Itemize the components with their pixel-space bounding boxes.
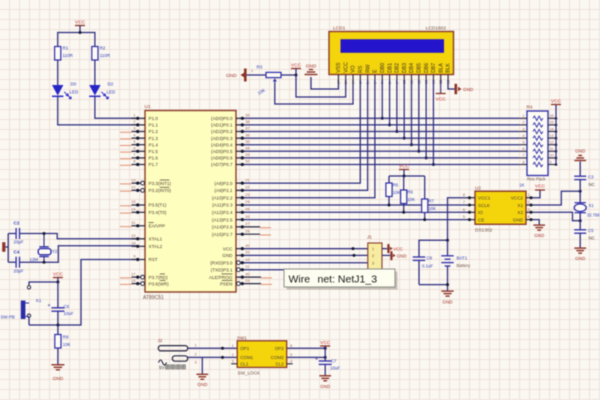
capacitor C2 xyxy=(15,228,17,239)
LCD pin names xyxy=(336,62,452,73)
svg-text:PSEN: PSEN xyxy=(220,281,233,286)
wire CE net (P2.5) xyxy=(244,219,467,221)
svg-text:12: 12 xyxy=(131,186,135,190)
svg-text:3: 3 xyxy=(372,261,374,265)
svg-text:Y2: Y2 xyxy=(52,249,58,254)
svg-text:U1: U1 xyxy=(145,104,151,110)
svg-text:LCD1602: LCD1602 xyxy=(426,26,447,32)
svg-text:(A8)P2.0: (A8)P2.0 xyxy=(214,181,233,186)
svg-text:(A13)P2.5: (A13)P2.5 xyxy=(212,217,233,222)
svg-text:6: 6 xyxy=(463,208,465,212)
svg-text:12: 12 xyxy=(550,141,554,145)
svg-text:VCC: VCC xyxy=(535,183,546,189)
svg-text:32: 32 xyxy=(245,160,249,164)
svg-text:DS1302: DS1302 xyxy=(475,228,493,234)
svg-text:32.768: 32.768 xyxy=(587,213,600,218)
svg-text:40: 40 xyxy=(245,244,249,248)
U1 right pins xyxy=(209,114,272,287)
svg-text:GND: GND xyxy=(442,300,453,305)
svg-text:C4: C4 xyxy=(14,249,20,254)
svg-text:VCC1: VCC1 xyxy=(478,196,491,201)
wire LCD DB2 to P0.2 xyxy=(396,80,398,132)
svg-text:5: 5 xyxy=(523,141,525,145)
svg-text:(A9)P2.1: (A9)P2.1 xyxy=(214,188,233,193)
power VCC (reset) xyxy=(53,277,63,279)
wire reset top rail xyxy=(29,282,58,286)
svg-text:8: 8 xyxy=(463,193,465,197)
battery BAT1 xyxy=(447,240,449,256)
svg-text:X1: X1 xyxy=(517,203,523,208)
svg-text:1: 1 xyxy=(232,344,234,348)
svg-text:SCLK: SCLK xyxy=(478,203,491,208)
wire LCD DB6 to P0.6 xyxy=(425,80,427,158)
wire VCC1 to battery rail xyxy=(448,198,467,241)
wire LCD RW to P2.1 xyxy=(244,80,368,190)
svg-text:NC: NC xyxy=(589,236,595,241)
SW1 pins xyxy=(231,344,293,367)
svg-text:DB6: DB6 xyxy=(424,63,430,73)
svg-text:19: 19 xyxy=(131,234,135,238)
wire J2 pin2 to SW1 COM1 xyxy=(188,356,238,358)
svg-text:SW-PB: SW-PB xyxy=(1,315,15,320)
svg-text:4: 4 xyxy=(290,360,292,364)
svg-text:+: + xyxy=(315,357,318,363)
ground port (LCD BLK) xyxy=(448,80,455,89)
LCD pin stubs and numbers xyxy=(337,75,451,85)
svg-text:(AD0)P0.0: (AD0)P0.0 xyxy=(211,116,233,121)
svg-text:3: 3 xyxy=(195,361,197,365)
wire LCD E to P2.2 xyxy=(244,80,375,198)
junction VCC rail xyxy=(79,31,82,34)
svg-text:6: 6 xyxy=(290,344,292,348)
wire XTAL1 net xyxy=(8,233,16,235)
svg-text:1: 1 xyxy=(337,82,341,84)
svg-text:(A12)P2.4: (A12)P2.4 xyxy=(212,210,233,215)
svg-text:26: 26 xyxy=(245,215,249,219)
svg-text:(RXD)P3.0: (RXD)P3.0 xyxy=(210,260,233,265)
svg-text:P1.6: P1.6 xyxy=(149,156,159,161)
svg-text:R6: R6 xyxy=(407,190,413,195)
resistor R6 10K xyxy=(403,176,405,190)
svg-text:5V: 5V xyxy=(159,365,166,370)
svg-text:35: 35 xyxy=(245,140,249,144)
ground (reset) xyxy=(51,364,64,366)
svg-text:P3.2(INT0): P3.2(INT0) xyxy=(149,188,172,193)
svg-text:15: 15 xyxy=(131,200,135,204)
svg-text:3: 3 xyxy=(528,208,530,212)
svg-text:1: 1 xyxy=(251,69,253,73)
svg-text:P3.4(T0): P3.4(T0) xyxy=(149,210,167,215)
svg-text:BLA: BLA xyxy=(438,63,444,73)
svg-text:GND: GND xyxy=(534,233,545,238)
svg-text:R2: R2 xyxy=(100,46,106,51)
svg-text:37: 37 xyxy=(245,127,249,131)
resistor R1 xyxy=(55,47,61,61)
wire wiper to LCD VO xyxy=(275,80,353,104)
svg-text:NC: NC xyxy=(589,182,595,187)
svg-text:OP2: OP2 xyxy=(275,346,285,351)
svg-text:SW_LOCK: SW_LOCK xyxy=(238,371,261,376)
capacitor C3 NC xyxy=(574,175,586,177)
svg-text:(AD3)P0.3: (AD3)P0.3 xyxy=(211,136,233,141)
svg-text:R4: R4 xyxy=(527,105,533,110)
svg-text:net: NetJ1_3: net: NetJ1_3 xyxy=(318,273,378,285)
svg-text:BLK: BLK xyxy=(446,63,452,73)
wire VSS to ground xyxy=(311,77,338,89)
svg-text:21: 21 xyxy=(245,178,249,182)
svg-text:4: 4 xyxy=(523,134,525,138)
svg-text:7: 7 xyxy=(463,201,465,205)
power VCC (SW1) xyxy=(320,345,330,347)
U1 left pin overlines xyxy=(149,180,170,280)
svg-text:GND: GND xyxy=(226,73,237,79)
U2 pins xyxy=(463,193,534,222)
svg-text:Res Pack: Res Pack xyxy=(527,177,546,182)
svg-text:2: 2 xyxy=(133,120,135,124)
power VCC port (J1 pin1) xyxy=(382,248,387,250)
ground (crystal column bottom) xyxy=(574,247,586,249)
svg-text:(AD4)P0.4: (AD4)P0.4 xyxy=(211,142,233,147)
svg-text:5: 5 xyxy=(290,353,292,357)
svg-text:11: 11 xyxy=(550,147,554,151)
svg-text:0.1uF: 0.1uF xyxy=(422,264,433,269)
svg-text:(TXD)P3.1: (TXD)P3.1 xyxy=(211,267,233,272)
svg-text:2: 2 xyxy=(372,254,374,258)
resistor R5 10K xyxy=(388,176,390,183)
wire P0 bus rows xyxy=(244,118,520,164)
svg-text:VCC: VCC xyxy=(320,340,331,346)
svg-text:XTAL2: XTAL2 xyxy=(149,244,163,249)
svg-text:P3.3(INT1): P3.3(INT1) xyxy=(149,181,172,186)
tooltip Wire net NetJ1_3 xyxy=(287,272,398,290)
svg-text:(AD5)P0.5: (AD5)P0.5 xyxy=(211,149,233,154)
svg-text:D0: D0 xyxy=(71,82,77,87)
svg-text:COM2: COM2 xyxy=(271,355,284,360)
svg-text:P1.4: P1.4 xyxy=(149,142,159,147)
svg-text:C6: C6 xyxy=(64,304,70,309)
wire SW1 COM2 to VCC xyxy=(287,356,326,358)
svg-text:P1.7: P1.7 xyxy=(149,162,159,167)
capacitor C7 10uF xyxy=(319,360,332,362)
svg-text:GND: GND xyxy=(306,64,317,70)
svg-text:7: 7 xyxy=(133,153,135,157)
svg-text:10uF: 10uF xyxy=(64,311,74,316)
svg-text:10K: 10K xyxy=(407,197,415,202)
capacitor C5 NC xyxy=(574,229,586,231)
wire LCD DB0 to P0.0 xyxy=(381,80,383,118)
svg-text:J1: J1 xyxy=(367,235,372,240)
svg-text:C3: C3 xyxy=(588,175,594,180)
svg-text:12M: 12M xyxy=(30,257,39,262)
svg-text:31: 31 xyxy=(131,221,135,225)
svg-text:20pF: 20pF xyxy=(14,269,24,274)
svg-text:IO: IO xyxy=(478,210,483,215)
svg-text:14: 14 xyxy=(131,208,135,212)
wire SCLK net (P2.3) xyxy=(244,204,467,206)
svg-text:13: 13 xyxy=(131,178,135,182)
svg-text:DB5: DB5 xyxy=(417,63,423,73)
power VCC (R4) xyxy=(551,104,561,106)
svg-text:5: 5 xyxy=(463,215,465,219)
svg-text:BAT1: BAT1 xyxy=(457,256,468,261)
svg-text:3: 3 xyxy=(232,360,234,364)
svg-text:EA/VPP: EA/VPP xyxy=(149,224,166,229)
svg-text:(A15)P2.7: (A15)P2.7 xyxy=(212,232,233,237)
wire U1 VCC pin to J1 pin1 xyxy=(244,248,368,250)
wire LCD DB4 to P0.4 xyxy=(411,80,413,145)
wire J2 pin1 to SW1 OP1 xyxy=(188,347,238,349)
svg-text:28: 28 xyxy=(245,229,249,233)
svg-text:39: 39 xyxy=(245,114,249,118)
svg-text:GND: GND xyxy=(320,384,331,389)
resistor R7 10K xyxy=(424,176,426,199)
svg-text:P1.5: P1.5 xyxy=(149,149,159,154)
svg-text:C5: C5 xyxy=(588,228,594,233)
svg-text:P1.2: P1.2 xyxy=(149,129,159,134)
svg-text:1: 1 xyxy=(372,247,374,251)
svg-text:RW: RW xyxy=(365,64,371,73)
power VCC (LED rail) xyxy=(75,25,85,27)
svg-text:X2: X2 xyxy=(517,210,523,215)
svg-text:P1.1: P1.1 xyxy=(149,123,159,128)
svg-text:10uF: 10uF xyxy=(330,366,340,371)
wire LCD DB3 to P0.3 xyxy=(403,80,405,138)
svg-text:22: 22 xyxy=(245,186,249,190)
svg-text:J2: J2 xyxy=(158,338,163,343)
crystal X1 32.768 xyxy=(575,202,586,204)
wire RST net xyxy=(29,260,137,326)
svg-text:8: 8 xyxy=(523,160,525,164)
svg-text:VCC: VCC xyxy=(436,97,447,103)
svg-text:DB2: DB2 xyxy=(395,63,401,73)
svg-text:2: 2 xyxy=(344,82,348,84)
svg-text:VO: VO xyxy=(351,65,357,72)
svg-text:2: 2 xyxy=(523,121,525,125)
ground (J2) xyxy=(201,357,203,374)
svg-text:(AD7)P0.7: (AD7)P0.7 xyxy=(211,162,233,167)
svg-text:AT89C51: AT89C51 xyxy=(143,295,164,301)
svg-text:GND: GND xyxy=(463,87,474,92)
svg-text:29: 29 xyxy=(245,279,249,283)
svg-text:2: 2 xyxy=(195,353,197,357)
svg-text:4: 4 xyxy=(133,133,135,137)
svg-text:34: 34 xyxy=(245,147,249,151)
svg-text:36: 36 xyxy=(245,133,249,137)
svg-text:LED: LED xyxy=(70,90,80,95)
svg-text:16: 16 xyxy=(131,279,135,283)
wire R8 to ground xyxy=(57,348,59,365)
wire battery top rail xyxy=(419,240,448,257)
ground (U2 GND pin) xyxy=(534,220,540,225)
svg-text:GND: GND xyxy=(575,256,586,261)
power VCC (U2 VCC2) xyxy=(534,190,541,197)
svg-text:10: 10 xyxy=(245,258,249,262)
capacitor C8 0.1uF xyxy=(413,256,426,258)
svg-text:R3: R3 xyxy=(257,65,263,70)
wire LCD DB7 to P0.7 xyxy=(432,80,434,165)
svg-text:(AD2)P0.2: (AD2)P0.2 xyxy=(211,129,233,134)
svg-text:2: 2 xyxy=(232,353,234,357)
svg-text:DB0: DB0 xyxy=(380,63,386,73)
svg-text:(A11)P2.3: (A11)P2.3 xyxy=(212,203,233,208)
svg-text:CE: CE xyxy=(478,217,484,222)
svg-text:3: 3 xyxy=(352,82,356,84)
wire U1 P3.1 to J1 pin4 xyxy=(244,269,368,271)
svg-text:ALE/PROG: ALE/PROG xyxy=(209,275,233,280)
svg-text:10K: 10K xyxy=(63,342,71,347)
capacitor C6 10uF xyxy=(57,282,59,308)
svg-text:SW1: SW1 xyxy=(237,336,247,341)
U1 left pins xyxy=(120,114,171,287)
resistor R2 xyxy=(92,47,98,61)
wire R2 to D2 xyxy=(94,60,96,85)
svg-text:P1.0: P1.0 xyxy=(149,116,159,121)
svg-text:10K: 10K xyxy=(393,190,401,195)
svg-text:P3.5(T1): P3.5(T1) xyxy=(149,203,167,208)
svg-text:18: 18 xyxy=(131,242,135,246)
svg-text:1K: 1K xyxy=(519,183,524,188)
ground (C7) xyxy=(319,375,331,377)
svg-text:Battery: Battery xyxy=(457,263,471,268)
wire X1 to crystal xyxy=(534,191,581,205)
svg-text:VCC: VCC xyxy=(291,62,302,68)
svg-text:(AD6)P0.6: (AD6)P0.6 xyxy=(211,156,233,161)
wire R1 to D0 xyxy=(57,60,59,85)
wire VCC to LCD pin2 xyxy=(296,75,346,97)
capacitor C4 xyxy=(15,257,17,268)
svg-text:15: 15 xyxy=(550,121,554,125)
svg-text:VSS: VSS xyxy=(336,62,342,73)
svg-text:R8: R8 xyxy=(63,335,69,340)
svg-text:VCC: VCC xyxy=(75,19,86,25)
svg-text:7: 7 xyxy=(523,154,525,158)
svg-text:DB7: DB7 xyxy=(431,63,437,73)
svg-text:RST: RST xyxy=(149,257,158,262)
svg-text:Wire: Wire xyxy=(289,273,311,285)
wire R3 to VCC node xyxy=(281,74,296,76)
wire U1 P3.0 to J1 pin3 (net NetJ1_3) xyxy=(244,262,368,264)
wire LED supply rail xyxy=(58,33,95,47)
svg-text:DB4: DB4 xyxy=(409,63,415,73)
svg-text:R1: R1 xyxy=(63,46,69,51)
svg-text:20pF: 20pF xyxy=(14,240,24,245)
svg-text:GND: GND xyxy=(222,253,233,258)
svg-text:K1: K1 xyxy=(36,298,42,303)
svg-text:GND: GND xyxy=(575,149,586,154)
svg-text:LED: LED xyxy=(107,90,117,95)
svg-text:VCC: VCC xyxy=(53,271,64,277)
svg-text:VCC: VCC xyxy=(393,246,403,251)
svg-text:13: 13 xyxy=(550,134,554,138)
power VCC (LCD backlight BLA) xyxy=(440,80,442,94)
crystal Y2 12M xyxy=(43,234,45,247)
svg-text:VCC: VCC xyxy=(551,98,562,104)
svg-text:14: 14 xyxy=(550,127,554,131)
wire X2 to crystal xyxy=(534,212,581,221)
wire D0 to U1 P1.1 xyxy=(58,96,137,125)
svg-text:E: E xyxy=(373,69,379,73)
svg-text:11: 11 xyxy=(245,265,249,269)
svg-text:R5: R5 xyxy=(393,183,399,188)
svg-text:1: 1 xyxy=(195,344,197,348)
LCD screen xyxy=(341,39,445,53)
svg-text:3: 3 xyxy=(523,127,525,131)
ground port (J1 pin2) xyxy=(382,254,390,256)
svg-text:DB3: DB3 xyxy=(402,63,408,73)
svg-text:27: 27 xyxy=(245,222,249,226)
wire D2 to U1 P1.0 xyxy=(95,96,137,118)
svg-text:P1.3: P1.3 xyxy=(149,136,159,141)
LED D0 xyxy=(52,85,63,96)
svg-text:8: 8 xyxy=(133,160,135,164)
svg-text:6: 6 xyxy=(523,147,525,151)
svg-text:17: 17 xyxy=(131,272,135,276)
svg-text:CL1: CL1 xyxy=(240,362,249,367)
wire LCD DB1 to P0.1 xyxy=(389,80,391,125)
wire R4 common to VCC xyxy=(555,105,557,165)
svg-text:P3.6(WR): P3.6(WR) xyxy=(149,281,170,286)
svg-text:COM1: COM1 xyxy=(240,355,253,360)
svg-text:25: 25 xyxy=(245,208,249,212)
U1 right pin overlines xyxy=(222,274,233,281)
svg-text:(AD1)P0.1: (AD1)P0.1 xyxy=(211,123,233,128)
svg-text:3: 3 xyxy=(133,127,135,131)
ground port (crystal circuit) xyxy=(2,242,5,252)
svg-text:9: 9 xyxy=(550,160,552,164)
wire LCD RS to P2.0 xyxy=(244,80,360,183)
ground (battery) xyxy=(441,290,453,292)
svg-text:LCD1: LCD1 xyxy=(333,26,346,32)
svg-text:+: + xyxy=(48,303,51,309)
svg-text:10: 10 xyxy=(550,154,554,158)
wire GND port to R3 xyxy=(247,74,266,76)
svg-text:4: 4 xyxy=(528,215,530,219)
svg-text:RS: RS xyxy=(358,65,364,73)
svg-text:110R: 110R xyxy=(100,53,111,58)
wire pull-up rail xyxy=(389,175,425,177)
svg-text:2: 2 xyxy=(528,201,530,205)
svg-text:GND: GND xyxy=(397,254,408,259)
svg-text:6: 6 xyxy=(133,147,135,151)
svg-text:X1: X1 xyxy=(589,203,595,208)
svg-text:GND: GND xyxy=(53,376,64,382)
svg-text:5: 5 xyxy=(133,140,135,144)
svg-text:C7: C7 xyxy=(331,359,337,364)
switch K1 SW-PB xyxy=(27,286,30,289)
svg-text:DB1: DB1 xyxy=(387,63,393,73)
svg-text:D2: D2 xyxy=(108,82,114,87)
svg-text:1: 1 xyxy=(528,193,530,197)
resistor R8 xyxy=(57,325,59,335)
svg-text:33: 33 xyxy=(245,153,249,157)
svg-text:CL2: CL2 xyxy=(276,362,285,367)
svg-text:R7: R7 xyxy=(428,199,434,204)
svg-text:23: 23 xyxy=(245,193,249,197)
svg-text:(A10)P2.2: (A10)P2.2 xyxy=(212,195,233,200)
svg-text:1: 1 xyxy=(133,114,135,118)
svg-text:C8: C8 xyxy=(427,256,433,261)
svg-text:16: 16 xyxy=(550,114,554,118)
svg-text:U2: U2 xyxy=(475,185,481,190)
svg-text:30: 30 xyxy=(245,272,249,276)
svg-text:1: 1 xyxy=(523,114,525,118)
wire battery bottom rail xyxy=(419,285,448,291)
junction reset node xyxy=(56,324,59,327)
wire ground riser (crystal) xyxy=(7,234,9,263)
svg-text:C2: C2 xyxy=(14,221,20,226)
svg-text:38: 38 xyxy=(245,120,249,124)
wire U1 GND pin to J1 pin2 xyxy=(244,254,368,256)
